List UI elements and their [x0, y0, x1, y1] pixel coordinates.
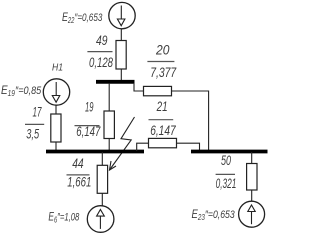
- wire resistor 44 to source: [101, 193, 103, 205]
- wire resistor 20 to bus 2: [172, 91, 209, 151]
- label E2.3"=0,653: [192, 208, 236, 222]
- bus 2: [191, 150, 268, 154]
- wire resistor 17 to bus: [55, 142, 57, 151]
- wire source H1 to resistor 17: [55, 105, 57, 114]
- long bus (fault bus): [46, 150, 144, 154]
- svg-text:H1: H1: [52, 62, 63, 74]
- wire upper bus to resistor 20: [134, 83, 144, 91]
- wire resistor 21 to bus 2: [177, 143, 200, 151]
- svg-text:20: 20: [155, 43, 170, 58]
- wire resistor 19 to bus: [108, 139, 110, 152]
- label E1.9"=0,85: [1, 84, 42, 98]
- svg-text:17: 17: [33, 104, 42, 119]
- svg-text:44: 44: [72, 156, 84, 171]
- label 17 / 3,5: [25, 104, 44, 141]
- label 19 / 6,147: [75, 99, 101, 139]
- label E2.2"=0,653: [62, 11, 103, 26]
- wire bus 2 to resistor 50: [251, 152, 253, 164]
- label 21 / 6,147: [149, 99, 177, 138]
- svg-text:21: 21: [156, 99, 168, 114]
- current source E6: [87, 206, 114, 233]
- upper bus: [96, 80, 135, 84]
- current source E2.3: [239, 201, 265, 227]
- resistor 44: [97, 165, 107, 193]
- svg-text:7,377: 7,377: [150, 65, 176, 80]
- wire upper bus to resistor 19: [108, 83, 110, 112]
- wire source E2.2 to resistor 49: [120, 29, 122, 41]
- svg-text:6,147: 6,147: [76, 124, 100, 139]
- svg-text:49: 49: [96, 33, 108, 48]
- label 50 / 0,321: [216, 153, 237, 191]
- svg-text:0,128: 0,128: [89, 55, 113, 70]
- label 44 / 1,661: [67, 156, 92, 190]
- fault lightning arrow: [110, 117, 135, 170]
- wire bus to resistor 21: [137, 143, 149, 151]
- label E6"=1,08: [48, 211, 79, 225]
- resistor 20: [144, 86, 172, 95]
- svg-text:E6″=1,08: E6″=1,08: [48, 211, 79, 225]
- resistor 19: [104, 111, 114, 139]
- wire bus to resistor 44: [101, 152, 103, 166]
- svg-text:0,321: 0,321: [216, 176, 237, 191]
- resistor 17: [51, 114, 61, 142]
- svg-text:E19″=0,85: E19″=0,85: [1, 84, 42, 98]
- svg-text:6,147: 6,147: [150, 123, 176, 138]
- svg-text:50: 50: [221, 153, 231, 168]
- svg-text:1,661: 1,661: [67, 175, 91, 190]
- svg-text:3,5: 3,5: [26, 126, 39, 141]
- resistor 21: [149, 138, 177, 147]
- svg-text:19: 19: [85, 99, 94, 114]
- resistor 50: [247, 164, 257, 191]
- resistor 49: [116, 41, 126, 70]
- current source H1 (E1.9): [43, 79, 69, 105]
- label 49 / 0,128: [87, 33, 113, 70]
- wire resistor 50 to source E2.3: [251, 190, 253, 201]
- wire resistor 49 to upper bus: [120, 69, 122, 81]
- current source E2.2: [109, 2, 135, 28]
- label 20 / 7,377: [147, 43, 176, 81]
